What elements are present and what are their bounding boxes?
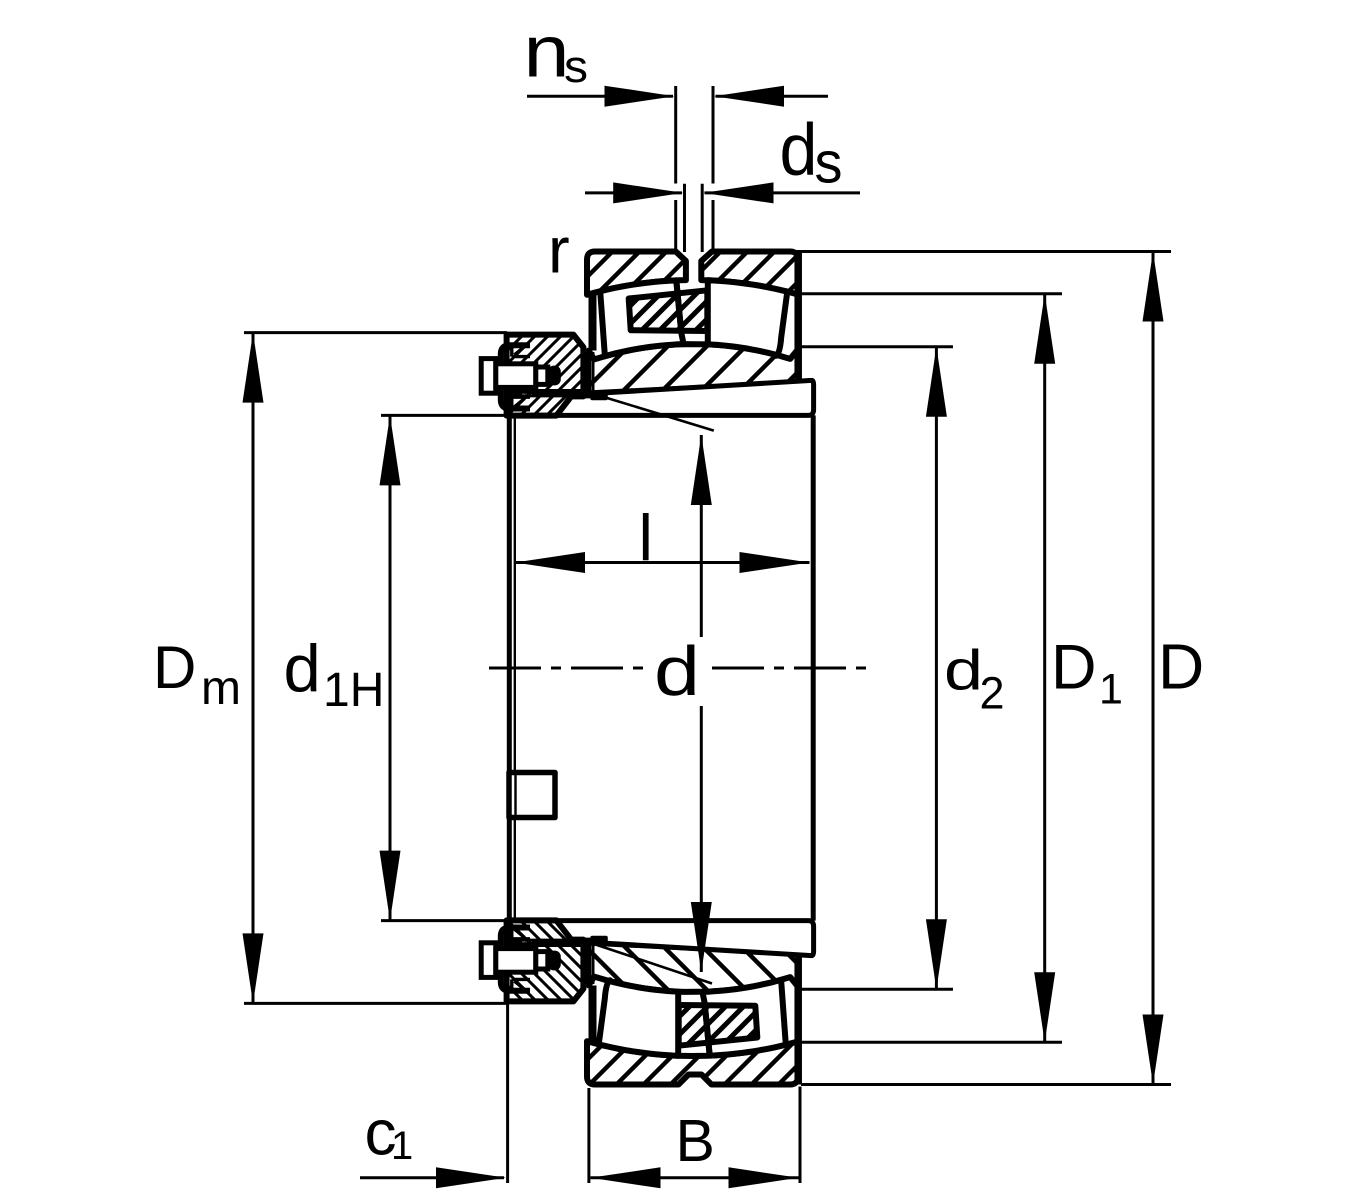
slit diagonal top	[598, 395, 714, 430]
svg-text:d: d	[284, 632, 321, 707]
clip tab lines top	[512, 345, 530, 408]
inner ring top	[589, 344, 799, 393]
roller right top row	[708, 280, 788, 356]
dimension B	[591, 1176, 799, 1179]
sleeve slit inner line	[514, 775, 516, 815]
dimension D_1	[1043, 294, 1046, 1042]
outer ring bottom	[587, 1041, 798, 1084]
dimension d_1H	[389, 415, 392, 920]
dimension d_s	[585, 191, 682, 194]
dimension l	[515, 561, 810, 564]
dimension n_s	[527, 95, 673, 98]
locking bolt tip top	[548, 366, 561, 386]
cage bar top row	[629, 290, 708, 331]
dimension d centre	[700, 435, 703, 637]
bearing left face bar top	[589, 292, 597, 351]
dimension c_1	[360, 1176, 504, 1179]
svg-text:D: D	[1051, 633, 1097, 703]
svg-text:d: d	[780, 110, 818, 191]
rotated bottom rollers group	[599, 980, 786, 1056]
sleeve far chamfer left	[514, 415, 516, 920]
svg-text:n: n	[524, 12, 570, 93]
locking bolt collar top	[536, 367, 548, 384]
slit diagonal bottom	[596, 945, 712, 984]
dimension d_2	[935, 347, 938, 990]
inner ring left face chamfer top	[592, 352, 595, 393]
roller left top row	[600, 280, 683, 356]
locking clip top	[501, 345, 530, 408]
dimension D_m	[252, 333, 255, 1004]
svg-text:l: l	[639, 501, 653, 574]
svg-text:1H: 1H	[323, 664, 384, 717]
svg-text:r: r	[548, 214, 570, 287]
lock nut top	[507, 335, 584, 416]
bearing right face bar top	[794, 252, 802, 379]
svg-text:s: s	[564, 41, 588, 92]
inner ring undercut top	[590, 393, 608, 401]
thread lines top	[507, 391, 583, 396]
mirrored bottom assembly group	[481, 920, 813, 1084]
centreline	[489, 667, 646, 670]
nut face line top	[583, 394, 590, 398]
sleeve far edge left	[507, 415, 512, 920]
svg-text:d: d	[654, 632, 700, 710]
adapter sleeve band top	[509, 380, 814, 415]
sleeve slit slot	[509, 773, 555, 818]
locking bolt shank top	[496, 364, 536, 388]
roller left face line over cage top row	[676, 280, 681, 333]
svg-text:D: D	[1158, 631, 1204, 703]
svg-text:B: B	[676, 1108, 715, 1174]
locking bolt head top	[481, 359, 496, 394]
sleeve far edge right	[811, 415, 816, 920]
dimension D	[1152, 252, 1155, 1085]
svg-text:1: 1	[391, 1124, 413, 1168]
svg-text:s: s	[815, 131, 843, 196]
outer ring top left piece	[587, 252, 686, 295]
svg-text:D: D	[153, 634, 196, 701]
svg-text:d: d	[944, 639, 983, 703]
svg-text:2: 2	[980, 668, 1005, 719]
svg-text:m: m	[201, 662, 241, 715]
svg-text:1: 1	[1099, 666, 1123, 714]
outer ring top right piece	[701, 252, 798, 295]
